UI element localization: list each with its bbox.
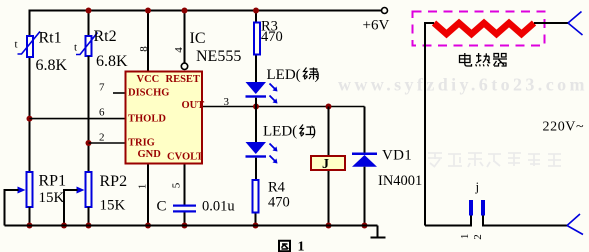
svg-text:GND: GND xyxy=(138,149,162,160)
svg-text:7: 7 xyxy=(99,82,105,94)
svg-text:t: t xyxy=(15,39,18,51)
svg-text:4: 4 xyxy=(173,47,185,53)
wire VD1 bottom xyxy=(364,167,366,226)
node VD1 bottom junction xyxy=(362,223,368,229)
node RP2 wiper junction xyxy=(61,223,67,229)
potentiometer RP1 xyxy=(18,172,33,207)
wire RP1 wiper to bottom rail xyxy=(5,190,19,226)
node pin8 rail junction xyxy=(145,8,151,14)
wire RP2 wiper to bottom rail xyxy=(64,190,78,226)
svg-text:+6V: +6V xyxy=(363,18,390,34)
wire contact to plug xyxy=(483,216,567,226)
relay coil J xyxy=(311,156,345,170)
wire R3 top xyxy=(255,11,257,22)
wire capacitor bottom xyxy=(184,213,186,226)
svg-text:1: 1 xyxy=(298,240,305,252)
svg-text:VD1: VD1 xyxy=(382,148,412,164)
wire R3 to LED green xyxy=(255,56,257,83)
relay contact j xyxy=(469,200,485,216)
thermistor Rt1 xyxy=(18,32,41,58)
svg-text:15K: 15K xyxy=(100,198,126,214)
svg-text:TRIG: TRIG xyxy=(128,138,155,149)
node LED green cathode OUT junction xyxy=(253,104,259,110)
svg-text:LED(: LED( xyxy=(267,67,301,83)
wire Rt1 bottom to THOLD node xyxy=(29,58,31,172)
potentiometer RP2 xyxy=(77,172,92,207)
wire VD1 top xyxy=(364,107,366,153)
wire pin5 CVOLT to capacitor xyxy=(184,165,186,205)
wire pin7 stub xyxy=(113,92,125,94)
wire LED red to R4 xyxy=(255,158,257,179)
wire left column upper (Rt1) xyxy=(29,10,31,37)
svg-text:IC: IC xyxy=(190,30,206,47)
wire pin8 VCC xyxy=(147,11,149,71)
svg-text:Rt2: Rt2 xyxy=(94,28,117,45)
svg-text:220V~: 220V~ xyxy=(543,120,585,135)
svg-text:5: 5 xyxy=(171,182,183,188)
op-amp U1 NE555 body xyxy=(126,72,203,164)
node R4 bottom junction xyxy=(253,223,259,229)
watermark CJK 实用电子制作网 xyxy=(428,153,561,167)
svg-text:2: 2 xyxy=(472,234,484,240)
CJK glyph 红 xyxy=(300,125,315,137)
svg-text:LED(: LED( xyxy=(263,124,297,140)
svg-text:www.syfzdiy.6to23.com: www.syfzdiy.6to23.com xyxy=(338,75,588,95)
svg-text:j: j xyxy=(475,179,480,194)
heating element zigzag xyxy=(434,23,534,34)
svg-text:2: 2 xyxy=(99,132,105,144)
wire heater bottom left xyxy=(425,216,471,226)
svg-text:RP1: RP1 xyxy=(39,173,67,190)
svg-text:J: J xyxy=(322,157,329,172)
svg-text:Rt1: Rt1 xyxy=(39,30,62,47)
node pin1 bottom junction xyxy=(145,223,151,229)
node OUT to relay junction xyxy=(326,104,332,110)
wire pin3 OUT line xyxy=(203,106,365,108)
svg-text:DISCHG: DISCHG xyxy=(128,88,169,99)
capacitor C xyxy=(173,205,196,213)
wire heater left xyxy=(425,23,434,226)
svg-text:CVOLT: CVOLT xyxy=(167,152,203,163)
+6V terminal circle xyxy=(382,8,388,14)
node RP1 bottom junction xyxy=(27,223,33,229)
svg-text:IN4001: IN4001 xyxy=(378,173,422,189)
svg-text:3: 3 xyxy=(224,96,230,108)
node relay bottom junction xyxy=(326,223,332,229)
svg-text:R4: R4 xyxy=(268,180,286,196)
wire heater right to plug xyxy=(534,22,568,24)
node Rt2 top rail junction xyxy=(86,8,92,14)
wire relay J bottom xyxy=(328,171,330,226)
node capacitor bottom junction xyxy=(182,223,188,229)
svg-text:t: t xyxy=(74,42,77,54)
wire LED green to LED red xyxy=(255,98,257,142)
node RP2 bottom junction xyxy=(86,223,92,229)
bottom rail xyxy=(5,225,378,227)
wire relay J top xyxy=(328,107,330,156)
svg-text:): ) xyxy=(315,67,320,83)
resistor R4 xyxy=(253,180,259,213)
LED red D2 xyxy=(246,142,278,164)
svg-text:8: 8 xyxy=(138,46,150,52)
svg-text:OUT: OUT xyxy=(182,100,205,111)
wire pin6 THOLD xyxy=(30,118,125,120)
node R3 rail junction xyxy=(253,8,259,14)
node pin4 rail junction xyxy=(182,8,188,14)
wire pin1 GND to bottom rail xyxy=(147,165,149,226)
wire RP2 bottom xyxy=(88,207,90,226)
label 电热器 xyxy=(460,53,508,66)
svg-text:15K: 15K xyxy=(39,190,65,206)
wire Rt2 top xyxy=(88,11,90,37)
resistor R3 xyxy=(254,23,260,55)
LED green D1 xyxy=(246,82,278,104)
plug terminal top xyxy=(568,12,583,36)
svg-text:6: 6 xyxy=(99,107,105,119)
heater dashed enclosure xyxy=(413,12,545,46)
wire pin4 RESET xyxy=(184,11,186,63)
node THOLD junction xyxy=(27,116,33,122)
svg-text:470: 470 xyxy=(261,29,283,45)
svg-text:): ) xyxy=(311,124,316,140)
svg-text:6.8K: 6.8K xyxy=(96,53,128,70)
top rail +6V xyxy=(30,10,382,12)
CJK glyph 绿 xyxy=(304,68,319,80)
svg-text:VCC: VCC xyxy=(137,74,160,85)
plug terminal bottom xyxy=(567,214,583,235)
pin4 RESET circle xyxy=(181,63,187,69)
thermistor Rt2 xyxy=(76,33,98,57)
label 图 1 caption xyxy=(279,241,290,252)
svg-text:470: 470 xyxy=(268,195,290,211)
svg-text:0.01u: 0.01u xyxy=(202,199,235,215)
svg-text:NE555: NE555 xyxy=(196,48,241,65)
diode VD1 xyxy=(352,153,377,167)
ground xyxy=(371,226,386,238)
svg-text:THOLD: THOLD xyxy=(128,114,166,125)
svg-text:1: 1 xyxy=(137,184,149,190)
svg-text:C: C xyxy=(157,199,167,215)
svg-text:6.8K: 6.8K xyxy=(36,57,68,74)
node TRIG junction xyxy=(86,140,92,146)
wire R4 bottom xyxy=(255,214,257,226)
wire Rt2 bottom to TRIG node xyxy=(88,56,90,172)
svg-text:RP2: RP2 xyxy=(100,173,128,190)
wire pin2 TRIG xyxy=(89,142,125,144)
wire RP1 bottom xyxy=(29,207,31,226)
svg-text:1: 1 xyxy=(459,234,471,240)
svg-text:RESET: RESET xyxy=(166,74,200,85)
